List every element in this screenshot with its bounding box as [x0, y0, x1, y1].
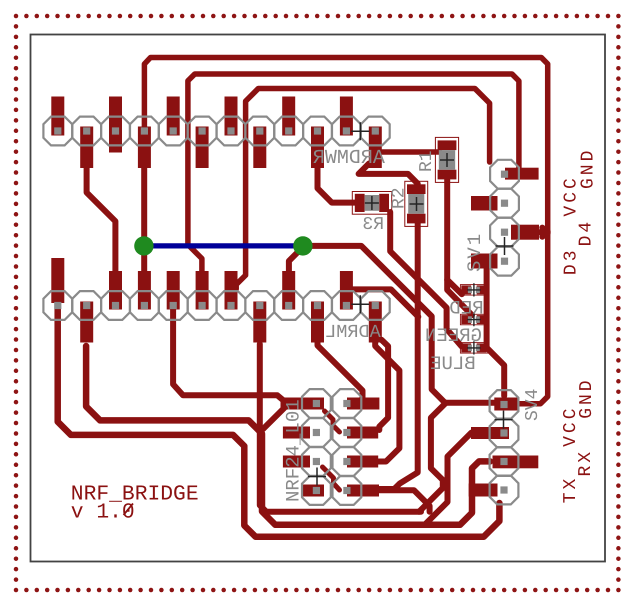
wire bottom header pin10 to NRF24 row1 right pad [318, 340, 363, 399]
resistor R1 [435, 137, 458, 182]
svg-text:VCC: VCC [561, 405, 581, 446]
connector ARDMWR pad copper (top header) [51, 97, 64, 136]
svg-text:GND: GND [579, 148, 599, 189]
connector ADRML pad copper (bottom header) [51, 258, 64, 303]
svg-text:R2: R2 [390, 187, 410, 209]
wire NRF24 row1 left to row2 right [325, 411, 340, 432]
LED BLUE package [460, 343, 488, 354]
wire top header pin12 to resistor R1 pad 1 [380, 149, 440, 155]
wire inner bottom bus: bottom header pin8 along bottom [260, 344, 421, 512]
wire NRF24 row3 left to row4 right [323, 467, 340, 490]
svg-text:RX: RX [576, 449, 596, 477]
connector SV1 origin cross [496, 237, 514, 255]
connector SV1 pin rings [490, 160, 519, 276]
svg-text:D4: D4 [577, 219, 597, 247]
connector SV4 pad copper [494, 398, 518, 411]
LED RED package [460, 285, 488, 296]
connector NRF24_L01 origin cross [308, 468, 326, 486]
wire middle bottom bus: bottom header pin2 to SV4 pin3 [86, 346, 490, 525]
wire right vertical to SV4 pin2 and bottom bus [425, 433, 500, 525]
via V2 [293, 236, 312, 255]
connector SV4 origin cross [495, 411, 513, 429]
wire top header pin2 to bottom header pin3 [87, 166, 116, 290]
svg-text:ADRML: ADRML [325, 322, 381, 343]
wire branch to LED GREEN anode [447, 280, 472, 315]
connector ARDMWR pin rings [43, 117, 389, 146]
connector NRF24_L01 pad copper [281, 398, 325, 410]
connector SV4 pin rings [490, 390, 519, 504]
wire net VCC: top header pin4 to right-side rail down to SV4 pin1 [144, 58, 547, 404]
svg-text:SV4: SV4 [523, 389, 543, 421]
connector ADRML origin cross [351, 295, 369, 313]
svg-text:BLUE: BLUE [430, 353, 476, 375]
svg-text:R3: R3 [362, 215, 384, 235]
wire LED BLUE to SV4 pin1 [487, 348, 504, 396]
wire net to SV1 pin1: top header area to SV1 pad A right rect [188, 74, 519, 290]
wire top header pin10 to resistor R3 pad 1 [318, 166, 356, 203]
svg-text:GREEN: GREEN [425, 325, 482, 347]
wire net to SV1 pad A left entry from bottom header pin7 [236, 89, 489, 290]
board outline [31, 35, 606, 562]
wire resistor R3 pad2 to LED BLUE anode [390, 212, 463, 346]
svg-text:D3: D3 [562, 247, 582, 275]
svg-text:VCC: VCC [561, 175, 581, 216]
wire bottom header pin5 to NRF24 row1 left rect [173, 308, 290, 406]
wire SV1 pin3 tap to VCC rail (Y junction) [538, 228, 548, 237]
wire top header pin4 through via V1 to bottom header pin4 [141, 160, 147, 274]
svg-text:RED: RED [449, 297, 483, 319]
connector NRF24_L01 pin rings [302, 389, 361, 505]
via V1 [134, 236, 153, 255]
wire LED cathode chain from SV1 pin4 [484, 263, 490, 349]
svg-text:SV1: SV1 [464, 232, 486, 272]
wire bottom header pin12 to NRF24 row3 [375, 340, 399, 462]
wire NRF24 row2 riser to top header pin12 net [379, 340, 388, 430]
wire via V2 down to SV4 pin1 [303, 246, 506, 403]
wire bottom header pin11 branch joining R2 vertical [349, 289, 418, 316]
connector ADRML pin rings [43, 291, 389, 320]
connector SV1 pad copper [505, 168, 539, 180]
connector ARDMWR origin cross [351, 122, 369, 140]
wire bottom-layer (blue) between vias V1 and V2 [144, 243, 303, 248]
wire via V2 to bottom header pin9 [289, 247, 303, 273]
svg-text:TX: TX [561, 476, 581, 504]
svg-text:R1: R1 [417, 150, 437, 172]
resistor R3 [352, 192, 391, 215]
resistor R2 [405, 181, 428, 226]
wire branch bottom bus to NRF24 row1 left pad [260, 404, 305, 432]
wire top header pin12 to resistor R2 pad 1 [359, 164, 418, 191]
wire NRF24 row4 joins inner bottom bus [378, 490, 430, 512]
wire outer bottom bus: bottom header pin1 to SV4 pin4 [58, 304, 500, 537]
svg-text:NRF24_L01: NRF24_L01 [283, 399, 305, 502]
LED GREEN package [460, 314, 488, 325]
wire SV4 pin1 junction down to inner bottom bus [419, 403, 446, 512]
svg-text:ARDMWR: ARDMWR [313, 147, 385, 170]
wire resistor R1 pad2 to LED RED anode [447, 176, 462, 294]
wire resistor R2 pad2 down to NRF24 row4 [379, 220, 418, 489]
